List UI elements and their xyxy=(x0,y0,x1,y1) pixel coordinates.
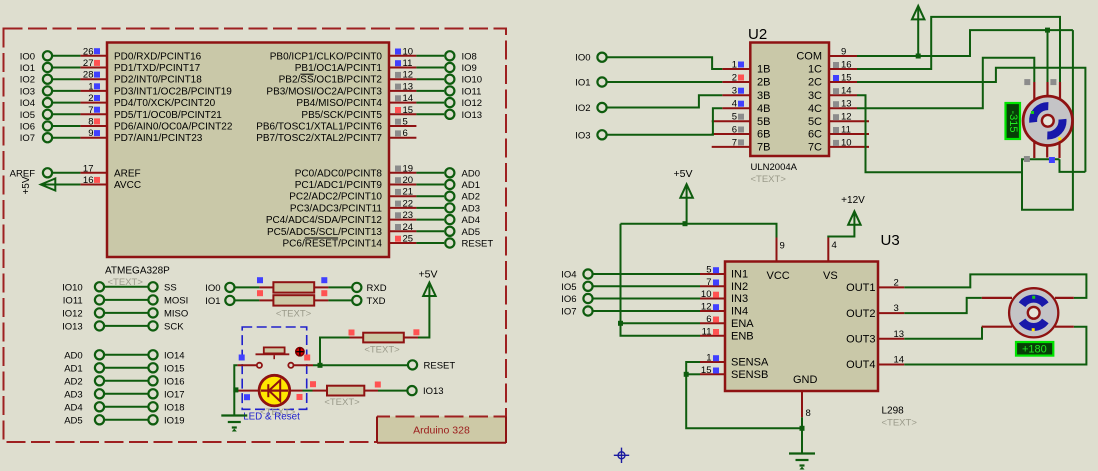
svg-text:1: 1 xyxy=(732,60,737,71)
U3 pin 6 (ENA) xyxy=(700,314,754,330)
terminal IO2 (U2 input) xyxy=(575,103,606,114)
terminal IO13 (block) xyxy=(407,386,443,397)
svg-text:IO13: IO13 xyxy=(423,386,444,397)
svg-text:17: 17 xyxy=(83,163,94,174)
svg-text:PD1/TXD/PCINT17: PD1/TXD/PCINT17 xyxy=(114,63,201,74)
U1 pin 25 (PC6) xyxy=(283,234,417,250)
terminal pair IO10-SS xyxy=(62,282,177,293)
svg-text:PD2/INT0/PCINT18: PD2/INT0/PCINT18 xyxy=(114,75,202,86)
wire IO1 to U2 2B xyxy=(607,81,723,83)
svg-text:PB0/ICP1/CLKO/PCINT0: PB0/ICP1/CLKO/PCINT0 xyxy=(270,51,383,62)
svg-text:12: 12 xyxy=(841,112,852,123)
terminal IO8 xyxy=(416,51,476,62)
U3 pin 8 (GND) xyxy=(793,374,818,419)
stepper motor M1 pins xyxy=(1034,82,1060,158)
svg-text:2C: 2C xyxy=(808,77,822,89)
svg-text:+12V: +12V xyxy=(841,195,865,206)
wire OUT2 to motor M2 xyxy=(904,298,982,313)
group label LED & Reset xyxy=(243,412,300,423)
U2 pin 16 (1C) xyxy=(808,60,857,76)
svg-text:ENA: ENA xyxy=(731,318,754,330)
terminal IO12 xyxy=(416,98,482,109)
svg-text:AD3: AD3 xyxy=(64,389,82,400)
svg-text:1: 1 xyxy=(88,81,93,92)
IC U2 ULN2004A body xyxy=(750,43,829,157)
svg-text:2: 2 xyxy=(894,277,899,288)
svg-text:PC1/ADC1/PCINT9: PC1/ADC1/PCINT9 xyxy=(295,180,383,191)
svg-text:13: 13 xyxy=(841,99,852,110)
svg-text:IO16: IO16 xyxy=(164,376,185,387)
svg-text:SS: SS xyxy=(164,282,177,293)
U2 pin 6 (6B) xyxy=(712,125,771,141)
svg-text:RESET: RESET xyxy=(462,239,494,250)
svg-text:23: 23 xyxy=(403,210,414,221)
svg-text:8: 8 xyxy=(88,117,93,128)
terminal IO7 (U3 input) xyxy=(561,306,700,317)
wire LED to series resistor xyxy=(303,390,313,392)
U1 pin 17 (AREF) xyxy=(80,163,140,179)
U1 pin 14 (PB4) xyxy=(296,93,416,109)
svg-text:+5V: +5V xyxy=(419,269,438,281)
svg-text:IO6: IO6 xyxy=(20,122,35,133)
svg-text:9: 9 xyxy=(841,47,846,58)
svg-text:6: 6 xyxy=(732,125,737,136)
svg-text:AD5: AD5 xyxy=(64,415,82,426)
terminal AD0 xyxy=(416,168,480,179)
wire U2 COM net to motor M1 xyxy=(857,28,1073,210)
svg-text:IN3: IN3 xyxy=(731,293,748,305)
svg-text:+180: +180 xyxy=(1022,344,1047,356)
svg-text:PB6/TOSC1/XTAL1/PCINT6: PB6/TOSC1/XTAL1/PCINT6 xyxy=(256,122,382,133)
svg-text:7B: 7B xyxy=(757,142,770,154)
svg-text:L298: L298 xyxy=(882,406,905,417)
U1 pin 5 (PB6) xyxy=(256,117,416,133)
svg-text:IO1: IO1 xyxy=(575,78,590,89)
U1 pin 16 (AVCC) xyxy=(80,175,141,191)
resistor R (IO1 to TXD) xyxy=(205,290,385,307)
terminal IO6 xyxy=(20,121,81,132)
U1 pin 7 (PD5) xyxy=(80,105,222,121)
svg-text:AD4: AD4 xyxy=(462,215,480,226)
U1 pin 26 (PD0) xyxy=(80,46,201,62)
terminal AD1 xyxy=(416,180,480,191)
svg-text:PD7/AIN1/PCINT23: PD7/AIN1/PCINT23 xyxy=(114,133,203,144)
wire OUT3 to motor M2 xyxy=(904,327,982,339)
svg-text:IO10: IO10 xyxy=(462,75,483,86)
svg-text:IO14: IO14 xyxy=(164,350,185,361)
svg-text:4C: 4C xyxy=(808,103,822,115)
svg-text:AVCC: AVCC xyxy=(114,180,141,191)
svg-text:4: 4 xyxy=(832,240,837,251)
terminal IO3 (U2 input) xyxy=(575,130,606,141)
wire IO3 to U2 4B xyxy=(607,108,723,135)
svg-text:11: 11 xyxy=(702,326,712,337)
terminal pair AD1-IO15 xyxy=(64,363,184,374)
U2 pin 13 (4C) xyxy=(808,99,857,115)
U1 pin 9 (PD7) xyxy=(80,128,202,144)
svg-text:IO11: IO11 xyxy=(63,295,83,306)
svg-text:AD3: AD3 xyxy=(462,203,480,214)
svg-text:<TEXT>: <TEXT> xyxy=(324,397,360,408)
svg-text:IO11: IO11 xyxy=(462,86,482,97)
U1 pin 11 (PB1) xyxy=(295,58,417,74)
svg-text:IO3: IO3 xyxy=(20,86,35,97)
wire +5V rail to ENA/ENB xyxy=(618,224,700,336)
svg-text:3C: 3C xyxy=(808,90,822,102)
terminal pair AD4-IO18 xyxy=(64,402,184,413)
svg-text:IO2: IO2 xyxy=(20,75,35,86)
svg-text:IO0: IO0 xyxy=(20,51,35,62)
svg-text:15: 15 xyxy=(701,365,712,376)
svg-text:10: 10 xyxy=(701,289,712,300)
U2 pin 9 (COM) xyxy=(796,47,857,63)
U3 part label L298 xyxy=(882,406,905,417)
svg-text:IO0: IO0 xyxy=(205,283,220,294)
svg-text:+5V: +5V xyxy=(674,168,693,180)
svg-text:AD0: AD0 xyxy=(64,350,82,361)
terminal IO10 xyxy=(416,75,482,86)
U1 pin 27 (PD1) xyxy=(80,58,200,74)
U1 pin 10 (PB0) xyxy=(270,46,417,62)
svg-text:PD6/AIN0/OC0A/PCINT22: PD6/AIN0/OC0A/PCINT22 xyxy=(114,122,233,133)
svg-text:14: 14 xyxy=(894,355,905,366)
svg-text:U3: U3 xyxy=(881,232,900,249)
svg-text:7: 7 xyxy=(732,137,737,148)
U2 pin 4 (4B) xyxy=(722,99,770,115)
svg-text:IO15: IO15 xyxy=(164,363,185,374)
U3 pin 10 (IN3) xyxy=(700,289,748,305)
blue dashed group box LED & Reset xyxy=(242,327,307,409)
U2 pin 1 (1B) xyxy=(722,60,770,76)
U1 pin 8 (PD6) xyxy=(80,117,232,133)
svg-text:RXD: RXD xyxy=(367,283,387,294)
svg-text:ULN2004A: ULN2004A xyxy=(751,162,798,173)
svg-text:15: 15 xyxy=(403,105,414,116)
svg-text:PB2/SS/OC1B/PCINT2: PB2/SS/OC1B/PCINT2 xyxy=(279,75,383,86)
svg-text:12: 12 xyxy=(701,302,712,313)
svg-text:12: 12 xyxy=(403,70,414,81)
svg-text:AREF: AREF xyxy=(114,168,141,179)
resistor R pullup xyxy=(349,329,420,342)
terminal IO9 xyxy=(416,63,476,74)
power +5V (reset pullup) xyxy=(419,269,438,297)
U3 pin 1 (SENSA) xyxy=(700,353,769,369)
svg-text:5: 5 xyxy=(706,265,711,276)
U2 value <TEXT> xyxy=(751,174,787,185)
R series label <TEXT> xyxy=(324,397,360,408)
svg-text:PD0/RXD/PCINT16: PD0/RXD/PCINT16 xyxy=(114,51,202,62)
svg-text:IO12: IO12 xyxy=(462,98,483,109)
svg-text:PB4/MISO/PCINT4: PB4/MISO/PCINT4 xyxy=(296,98,382,109)
svg-text:IO0: IO0 xyxy=(575,53,590,64)
svg-text:VCC: VCC xyxy=(767,270,790,282)
svg-text:IO19: IO19 xyxy=(164,415,185,426)
U1 pin 15 (PB5) xyxy=(301,105,416,121)
origin marker xyxy=(614,448,629,463)
U2 pin 11 (6C) xyxy=(808,125,869,141)
svg-text:AD2: AD2 xyxy=(64,376,82,387)
svg-text:IO10: IO10 xyxy=(62,282,83,293)
terminal IO6 (U3 input) xyxy=(561,294,700,305)
M1 angle display -315 xyxy=(1006,103,1021,139)
terminal pair IO11-MOSI xyxy=(63,295,188,306)
svg-text:7: 7 xyxy=(88,105,93,116)
svg-text:IN2: IN2 xyxy=(731,281,748,293)
svg-text:1C: 1C xyxy=(808,64,822,76)
U1 pin 19 (PC0) xyxy=(295,163,417,179)
svg-text:1: 1 xyxy=(706,353,711,364)
svg-text:IO5: IO5 xyxy=(20,110,35,121)
svg-text:13: 13 xyxy=(403,81,414,92)
U3 pin 5 (IN1) xyxy=(700,265,748,281)
wire SENSA/SENSB to ground xyxy=(684,362,805,454)
svg-text:AD1: AD1 xyxy=(462,180,480,191)
terminal IO0 xyxy=(20,51,81,62)
svg-text:14: 14 xyxy=(841,86,852,97)
U1 pin 2 (PD4) xyxy=(80,93,215,109)
svg-text:OUT4: OUT4 xyxy=(846,359,875,371)
svg-text:IO3: IO3 xyxy=(575,130,590,141)
U3 pin 7 (IN2) xyxy=(700,277,748,293)
subcircuit border (Arduino 328 block) xyxy=(4,29,507,443)
button state squares xyxy=(239,355,311,361)
resistor R series (IO13) xyxy=(313,382,381,396)
svg-text:3: 3 xyxy=(732,86,737,97)
terminal AD4 xyxy=(416,215,480,226)
power +12V (U3 VS) xyxy=(828,195,865,238)
wire +5V rail to U3 VCC xyxy=(621,224,777,238)
svg-text:GND: GND xyxy=(793,374,818,386)
svg-text:4B: 4B xyxy=(757,103,770,115)
U2 pin 12 (5C) xyxy=(808,112,869,128)
svg-text:IN4: IN4 xyxy=(731,306,748,318)
svg-text:19: 19 xyxy=(403,163,414,174)
terminal pair AD5-IO19 xyxy=(64,415,184,426)
svg-text:AD1: AD1 xyxy=(64,363,82,374)
U1 value <TEXT> xyxy=(108,277,144,288)
subcircuit title box Arduino 328 xyxy=(377,417,506,443)
svg-text:13: 13 xyxy=(894,329,905,340)
svg-text:2B: 2B xyxy=(757,77,770,89)
svg-text:PB3/MOSI/OC2A/PCINT3: PB3/MOSI/OC2A/PCINT3 xyxy=(266,86,382,97)
svg-text:OUT3: OUT3 xyxy=(846,334,875,346)
svg-text:IO7: IO7 xyxy=(561,307,576,318)
svg-text:<TEXT>: <TEXT> xyxy=(276,309,312,320)
U2 pin 2 (2B) xyxy=(722,73,770,89)
svg-text:SCK: SCK xyxy=(164,321,184,332)
svg-text:IO4: IO4 xyxy=(561,270,576,281)
svg-text:25: 25 xyxy=(403,234,414,245)
terminal IO0 (U2 input) xyxy=(575,53,606,64)
U2 pin 5 (5B) xyxy=(712,112,771,128)
svg-text:AD5: AD5 xyxy=(462,227,480,238)
IC U1 ATMEGA328P body xyxy=(107,43,389,258)
push button xyxy=(237,347,313,368)
terminal IO4 (U3 input) xyxy=(561,269,700,280)
svg-text:AD0: AD0 xyxy=(462,168,480,179)
U3 reference label xyxy=(881,232,900,249)
U1 pin 28 (PD2) xyxy=(80,70,202,86)
terminal AD3 xyxy=(416,203,480,214)
svg-text:10: 10 xyxy=(841,137,852,148)
svg-text:OUT2: OUT2 xyxy=(846,308,875,320)
svg-text:PD4/T0/XCK/PCINT20: PD4/T0/XCK/PCINT20 xyxy=(114,98,216,109)
svg-text:IO9: IO9 xyxy=(462,63,477,74)
svg-text:PC3/ADC3/PCINT11: PC3/ADC3/PCINT11 xyxy=(290,203,383,214)
svg-text:MISO: MISO xyxy=(164,308,188,319)
svg-text:2: 2 xyxy=(732,73,737,84)
svg-text:24: 24 xyxy=(403,222,414,233)
M2 angle display +180 xyxy=(1016,342,1053,356)
R pullup label <TEXT> xyxy=(364,345,400,356)
wire U2 4C to motor M1 xyxy=(857,58,1034,108)
wire button-left to ground rail xyxy=(233,365,238,415)
svg-text:28: 28 xyxy=(83,70,94,81)
svg-text:5B: 5B xyxy=(757,116,770,128)
U3 pin 13 (OUT3) xyxy=(846,329,904,346)
svg-text:LED & Reset: LED & Reset xyxy=(243,412,300,423)
svg-text:SENSA: SENSA xyxy=(731,357,769,369)
svg-text:21: 21 xyxy=(403,187,414,198)
svg-text:PC0/ADC0/PCINT8: PC0/ADC0/PCINT8 xyxy=(295,168,383,179)
svg-text:IO7: IO7 xyxy=(20,133,35,144)
svg-text:PD3/INT1/OC2B/PCINT19: PD3/INT1/OC2B/PCINT19 xyxy=(114,86,232,97)
svg-text:PB5/SCK/PCINT5: PB5/SCK/PCINT5 xyxy=(301,110,382,121)
svg-text:PB7/TOSC2/XTAL2/PCINT7: PB7/TOSC2/XTAL2/PCINT7 xyxy=(256,133,382,144)
U3 pin 15 (SENSB) xyxy=(700,365,768,381)
U1 pin 22 (PC3) xyxy=(290,198,416,214)
svg-text:ATMEGA328P: ATMEGA328P xyxy=(105,266,170,277)
wire junction up to pullup resistor xyxy=(320,338,350,366)
U1 pin 23 (PC4) xyxy=(266,210,417,226)
svg-text:3: 3 xyxy=(894,303,899,314)
ground (LED block) xyxy=(221,416,247,432)
svg-text:26: 26 xyxy=(83,46,94,57)
stepper motor M2 pins xyxy=(982,298,1074,327)
terminal IO7 xyxy=(20,133,81,144)
U1 pin 24 (PC5) xyxy=(267,222,416,238)
svg-text:PD5/T1/OC0B/PCINT21: PD5/T1/OC0B/PCINT21 xyxy=(114,110,222,121)
wire U2 3C to motor M1 xyxy=(857,95,1022,172)
U2 pin 3 (3B) xyxy=(722,86,770,102)
svg-text:6: 6 xyxy=(706,314,711,325)
terminal IO1 (U2 input) xyxy=(575,77,606,88)
U1 label ATMEGA328P xyxy=(105,266,170,277)
svg-text:10: 10 xyxy=(403,46,414,57)
svg-text:IO5: IO5 xyxy=(561,282,576,293)
svg-text:IO4: IO4 xyxy=(20,98,35,109)
U3 pin 4 (VS) xyxy=(823,238,838,283)
svg-text:5C: 5C xyxy=(808,116,822,128)
LED state squares xyxy=(244,381,316,400)
svg-text:PC2/ADC2/PCINT10: PC2/ADC2/PCINT10 xyxy=(289,192,382,203)
svg-text:-315: -315 xyxy=(1007,110,1019,132)
resistor R (IO0 to RXD) xyxy=(205,277,386,294)
stepper motor M2 xyxy=(1009,288,1058,337)
svg-text:<TEXT>: <TEXT> xyxy=(751,174,787,185)
terminal IO5 xyxy=(20,110,81,121)
svg-text:PB1/OC1A/PCINT1: PB1/OC1A/PCINT1 xyxy=(295,63,383,74)
U2 pin 14 (3C) xyxy=(808,86,857,102)
svg-text:IO6: IO6 xyxy=(561,294,576,305)
U1 pin 1 (PD3) xyxy=(80,81,232,97)
terminal RESET (block) xyxy=(408,360,455,371)
svg-text:ENB: ENB xyxy=(731,331,754,343)
U2 pin 7 (7B) xyxy=(712,137,771,153)
svg-text:RESET: RESET xyxy=(424,360,456,371)
svg-text:5: 5 xyxy=(732,112,737,123)
terminal IO3 xyxy=(20,86,81,97)
U3 pin 11 (ENB) xyxy=(700,326,754,342)
wire OUT1 to motor M2 xyxy=(904,274,1086,298)
power +5V at AVCC xyxy=(21,176,80,194)
wire IO2 to U2 3B xyxy=(607,95,723,107)
terminal pair AD2-IO16 xyxy=(64,376,184,387)
svg-text:1B: 1B xyxy=(757,64,770,76)
svg-text:U2: U2 xyxy=(748,26,767,43)
svg-text:5: 5 xyxy=(403,117,408,128)
svg-text:8: 8 xyxy=(806,408,811,419)
U1 pin 20 (PC1) xyxy=(295,175,417,191)
svg-text:7C: 7C xyxy=(808,142,822,154)
svg-text:SENSB: SENSB xyxy=(731,369,768,381)
svg-text:6C: 6C xyxy=(808,129,822,141)
svg-text:IO2: IO2 xyxy=(575,103,590,114)
LED D1 xyxy=(234,375,302,406)
U3 pin 14 (OUT4) xyxy=(846,355,904,372)
terminal pair AD3-IO17 xyxy=(64,389,184,400)
terminal IO2 xyxy=(20,75,81,86)
svg-text:IO18: IO18 xyxy=(164,402,185,413)
U1 pin 12 (PB2) xyxy=(279,70,417,86)
svg-text:COM: COM xyxy=(796,51,822,63)
terminal AREF (left) xyxy=(10,168,81,179)
power +5V (U3 logic) xyxy=(674,168,693,226)
wire U2 1C to motor M1 xyxy=(857,17,1060,82)
svg-text:<TEXT>: <TEXT> xyxy=(364,345,400,356)
M1 pin state squares xyxy=(1024,79,1057,163)
U2 part label ULN2004A xyxy=(751,162,798,173)
svg-text:2: 2 xyxy=(88,93,93,104)
U3 pin 3 (OUT2) xyxy=(846,303,904,320)
svg-text:OUT1: OUT1 xyxy=(846,282,875,294)
svg-text:IO13: IO13 xyxy=(462,110,483,121)
IC U3 L298 body xyxy=(725,262,878,392)
svg-text:4: 4 xyxy=(732,99,737,110)
svg-text:20: 20 xyxy=(403,175,414,186)
U2 reference label xyxy=(748,26,767,43)
svg-text:16: 16 xyxy=(83,175,94,186)
power arrow (COM rail) xyxy=(912,6,925,59)
svg-text:TXD: TXD xyxy=(367,296,386,307)
wire pullup to +5V xyxy=(418,284,429,338)
U3 pin 2 (OUT1) xyxy=(846,277,904,294)
terminal RESET (PC6) xyxy=(416,238,493,249)
terminal pair AD0-IO14 xyxy=(64,350,184,361)
U3 value <TEXT> xyxy=(882,418,918,429)
terminal IO11 xyxy=(416,86,481,97)
svg-text:27: 27 xyxy=(83,58,94,69)
svg-text:IN1: IN1 xyxy=(731,269,748,281)
svg-text:IO1: IO1 xyxy=(205,296,220,307)
svg-text:Arduino 328: Arduino 328 xyxy=(413,425,470,437)
wire button-right junction to RESET terminal xyxy=(313,363,407,368)
svg-text:11: 11 xyxy=(841,125,851,136)
terminal AD5 xyxy=(416,227,480,238)
stepper motor M1 xyxy=(1023,96,1072,145)
wire U2 2C to motor M1 xyxy=(857,68,1085,172)
svg-text:VS: VS xyxy=(823,270,838,282)
